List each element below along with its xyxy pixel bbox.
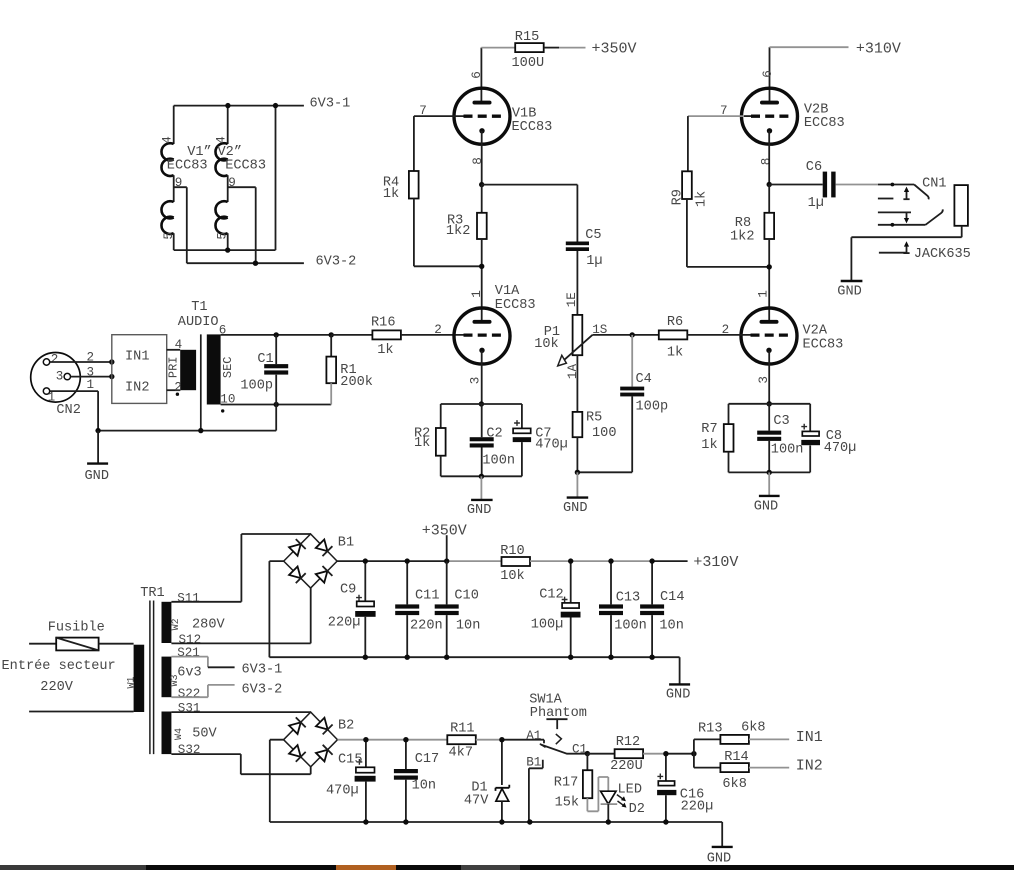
resistor R1: [330, 335, 332, 357]
wire R11 to switch A1: [476, 739, 502, 741]
resistor R12: [615, 749, 644, 758]
transformer T1 core screen: [200, 334, 202, 430]
wire S11 to B1 top: [171, 534, 310, 602]
wire V2B cathode pin8: [768, 131, 770, 185]
svg-text:280V: 280V: [192, 618, 225, 633]
capacitor C8 electrolytic: [809, 404, 811, 432]
wire XLR pin2 to IN1: [50, 361, 112, 363]
wire V2 heater mid: [227, 175, 229, 202]
bridge rectifier B2: [284, 712, 355, 767]
jack sleeve contact: [879, 252, 906, 254]
node +350V stub: [446, 535, 448, 561]
svg-text:3: 3: [56, 370, 64, 384]
resistor R14: [720, 763, 749, 772]
svg-text:D2: D2: [629, 802, 645, 817]
wire LT plus rail: [338, 739, 448, 741]
svg-text:100µ: 100µ: [531, 618, 564, 633]
svg-text:ECC83: ECC83: [803, 337, 844, 352]
svg-text:TR1: TR1: [140, 586, 164, 601]
svg-text:9: 9: [228, 176, 236, 190]
svg-text:GND: GND: [666, 687, 690, 702]
wire cathode group top rail: [441, 403, 522, 405]
capacitor C17: [405, 740, 407, 769]
svg-text:6k8: 6k8: [722, 777, 746, 792]
heater coil V1 lower: [161, 201, 173, 234]
wire B1 minus to ground rail: [269, 561, 283, 657]
svg-text:220V: 220V: [40, 680, 73, 695]
svg-text:1: 1: [48, 391, 56, 405]
wire branch to R13: [694, 739, 721, 753]
svg-text:SEC: SEC: [221, 356, 235, 378]
resistor R17: [586, 754, 588, 771]
jack arrow down: [906, 213, 908, 220]
wire R3 to V1A plate: [481, 239, 483, 321]
svg-text:6V3-2: 6V3-2: [316, 254, 357, 269]
wire R8 to V2A plate: [768, 239, 770, 321]
svg-text:1: 1: [470, 290, 484, 298]
tube V1B: [454, 88, 552, 144]
phase dot PRI: [176, 393, 179, 396]
svg-text:R7: R7: [701, 422, 717, 437]
wire V1 pin5 drop: [173, 233, 175, 250]
resistor R9: [682, 171, 692, 199]
resistor R16: [331, 334, 372, 336]
transformer T1 primary winding: [180, 350, 196, 390]
resistor R8: [768, 185, 770, 213]
zener diode D1: [501, 740, 503, 785]
jack ring lever: [926, 209, 943, 224]
capacitor C16 electrolytic: [665, 754, 667, 781]
svg-text:R17: R17: [554, 775, 578, 790]
svg-text:IN1: IN1: [125, 350, 149, 365]
svg-text:T1: T1: [191, 300, 207, 315]
P1 wiper arrow: [564, 335, 593, 361]
svg-text:4: 4: [161, 136, 175, 144]
svg-text:100: 100: [592, 426, 616, 441]
svg-text:GND: GND: [837, 284, 861, 299]
wire V1B cathode pin8: [481, 131, 483, 185]
bottom taskbar strip: [0, 865, 1014, 870]
node R1 top: [329, 332, 334, 337]
node V2B cathode: [767, 182, 772, 187]
svg-text:200k: 200k: [340, 375, 373, 390]
svg-text:+310V: +310V: [693, 554, 738, 571]
capacitor C10: [446, 561, 448, 604]
svg-text:CN1: CN1: [922, 177, 946, 192]
svg-text:S12: S12: [179, 633, 202, 647]
svg-text:C10: C10: [454, 588, 478, 603]
wire R17 to LED jog: [587, 777, 608, 811]
svg-text:1k: 1k: [377, 343, 393, 358]
svg-text:S22: S22: [178, 687, 201, 701]
svg-text:C5: C5: [585, 228, 601, 243]
transformer TR1 core: [150, 601, 154, 755]
svg-text:6k8: 6k8: [741, 720, 765, 735]
node R5/C4 ground: [575, 470, 580, 475]
wire heater 6V3-1 top rail: [174, 105, 304, 107]
node C1 bottom: [274, 402, 279, 407]
ground P1/R5: [576, 472, 578, 497]
transformer T1 input box: [112, 335, 167, 404]
svg-text:1k: 1k: [383, 187, 399, 202]
node R13/R14 branch: [691, 751, 696, 756]
wire jack sleeve to ground: [851, 226, 961, 281]
transformer TR1 6v3 winding: [162, 657, 172, 698]
wire V1A cathode: [481, 351, 483, 404]
svg-text:1k: 1k: [667, 345, 683, 360]
node V1B cathode: [479, 182, 484, 187]
svg-text:+310V: +310V: [856, 40, 901, 57]
wire +310V rail: [530, 560, 652, 562]
svg-text:C3: C3: [773, 414, 789, 429]
svg-text:100p: 100p: [636, 400, 669, 415]
svg-text:C2: C2: [486, 426, 502, 441]
wire R6 to V2A grid: [687, 334, 750, 336]
wire V1 heater mid: [173, 175, 175, 202]
wire V2 pin9 tap: [228, 187, 256, 263]
bridge rectifier B1: [284, 534, 354, 588]
wire C1 to R12: [587, 753, 614, 755]
svg-text:C11: C11: [415, 588, 439, 603]
node R3/R4 junction: [479, 264, 484, 269]
svg-text:ECC83: ECC83: [167, 158, 208, 173]
svg-text:3: 3: [469, 377, 483, 385]
svg-text:220U: 220U: [610, 759, 643, 774]
potentiometer P1: [573, 315, 583, 355]
wire cathode to C6: [769, 184, 823, 186]
heater coil V2 lower: [215, 201, 227, 234]
capacitor C12 electrolytic: [570, 561, 572, 603]
svg-text:1k2: 1k2: [730, 229, 754, 244]
svg-text:6: 6: [761, 70, 775, 78]
svg-text:1k: 1k: [701, 438, 717, 453]
fuse F1: [56, 638, 98, 651]
wire C6 to jack CN1: [836, 184, 878, 186]
ground V1A cathode: [480, 476, 482, 500]
resistor R4: [409, 171, 419, 199]
svg-text:R6: R6: [667, 315, 683, 330]
svg-text:Entrée secteur: Entrée secteur: [2, 659, 116, 674]
svg-text:5: 5: [162, 232, 176, 240]
svg-text:IN1: IN1: [796, 729, 823, 746]
jack ring contact lower: [878, 224, 926, 226]
wire S22 to 6V3-2: [171, 685, 208, 697]
svg-text:R16: R16: [371, 315, 395, 330]
svg-text:10k: 10k: [500, 569, 524, 584]
wire V2 heater pin4 drop: [227, 106, 229, 144]
svg-text:GND: GND: [707, 852, 731, 867]
svg-text:IN2: IN2: [125, 380, 149, 395]
svg-text:R13: R13: [698, 722, 722, 737]
wire box to PRI top: [167, 349, 181, 351]
wire V1B grid pin7: [414, 116, 464, 171]
node cathode group bottom: [479, 474, 484, 479]
svg-text:B2: B2: [338, 719, 354, 734]
svg-text:220µ: 220µ: [681, 799, 714, 814]
svg-text:R11: R11: [450, 721, 474, 736]
node XLR pin1 ground: [95, 428, 100, 433]
capacitor C13: [610, 561, 612, 604]
wire S12 to B1 bottom: [171, 588, 310, 643]
svg-text:A1: A1: [526, 729, 541, 743]
svg-text:10n: 10n: [412, 778, 436, 793]
svg-text:ECC83: ECC83: [225, 158, 266, 173]
svg-text:AUDIO: AUDIO: [178, 315, 219, 330]
svg-text:Fusible: Fusible: [48, 621, 105, 636]
tube V1A: [454, 284, 536, 364]
svg-text:IN2: IN2: [796, 757, 823, 774]
wire V2B grid pin7: [688, 115, 744, 117]
svg-text:R9: R9: [670, 189, 685, 205]
svg-text:2: 2: [87, 350, 95, 364]
svg-text:10n: 10n: [456, 619, 480, 634]
svg-text:6V3-1: 6V3-1: [310, 97, 351, 112]
svg-text:R12: R12: [616, 735, 640, 750]
node heater junctions: [225, 103, 230, 108]
ground LT rail: [721, 822, 723, 847]
svg-text:R5: R5: [586, 411, 602, 426]
wire SEC bottom rail: [221, 404, 332, 406]
jack ring contact upper: [878, 211, 911, 213]
wire SEC top rail to R16: [221, 334, 332, 336]
svg-text:4k7: 4k7: [449, 746, 473, 761]
connector CN1 jack tip lever: [914, 185, 929, 200]
capacitor C9 electrolytic: [364, 561, 366, 601]
capacitor C6: [823, 172, 827, 198]
svg-text:+350V: +350V: [422, 523, 467, 540]
svg-text:2: 2: [434, 323, 442, 337]
svg-text:15k: 15k: [555, 795, 579, 810]
svg-text:S11: S11: [177, 591, 200, 605]
svg-text:100n: 100n: [771, 442, 804, 457]
wire C5 to P1: [576, 251, 578, 315]
wire V2B plate to +310V: [769, 47, 771, 102]
svg-text:2: 2: [174, 380, 182, 394]
svg-text:10n: 10n: [659, 619, 683, 634]
transformer TR1 280V winding: [162, 602, 172, 643]
wire R4 to grid-leak node: [414, 199, 482, 267]
svg-text:1k2: 1k2: [446, 224, 470, 239]
jack body: [954, 185, 968, 226]
svg-text:8: 8: [471, 157, 485, 165]
svg-text:R14: R14: [724, 750, 748, 765]
node R8/R9 junction: [767, 264, 772, 269]
svg-text:220n: 220n: [410, 619, 443, 634]
resistor R11: [447, 735, 476, 744]
node C1 top: [274, 332, 279, 337]
wire fuse to TR1: [99, 643, 134, 645]
svg-text:S31: S31: [178, 701, 201, 715]
svg-text:47V: 47V: [464, 794, 489, 809]
svg-text:470µ: 470µ: [824, 441, 857, 456]
svg-text:C4: C4: [636, 372, 652, 387]
svg-text:1k: 1k: [695, 191, 710, 207]
wire V2A cathode group bottom rail: [729, 471, 811, 473]
wire LT ground rail: [270, 821, 722, 823]
svg-text:470µ: 470µ: [326, 783, 359, 798]
wire R16 to V1A grid: [401, 334, 464, 336]
capacitor C1: [275, 335, 277, 364]
svg-text:10k: 10k: [534, 337, 558, 352]
svg-text:6V3-2: 6V3-2: [242, 683, 283, 698]
LED D2: [601, 791, 616, 804]
resistor R15: [515, 43, 544, 52]
wire 6V3-2 rail: [187, 262, 304, 264]
svg-text:6: 6: [470, 71, 484, 79]
svg-text:C12: C12: [539, 587, 563, 602]
svg-text:C6: C6: [806, 160, 822, 175]
svg-text:W2: W2: [171, 618, 182, 630]
capacitor C5: [566, 242, 589, 246]
jack arrow up 2: [906, 245, 908, 254]
phase dot SEC: [221, 409, 224, 412]
svg-text:100U: 100U: [512, 56, 545, 71]
svg-text:R15: R15: [515, 30, 539, 45]
wire HT ground rail: [269, 656, 679, 658]
svg-text:CN2: CN2: [56, 403, 80, 418]
wire S32 to B2 bottom: [171, 754, 310, 774]
node V2A cathode group bottom: [767, 470, 772, 475]
wire mains input top: [29, 643, 56, 645]
svg-text:S21: S21: [177, 646, 200, 660]
tube V2A: [741, 308, 843, 364]
svg-text:LED: LED: [618, 782, 642, 797]
capacitor C3: [768, 404, 770, 431]
svg-text:1: 1: [757, 290, 771, 298]
wire cathode to C5: [482, 185, 578, 242]
svg-text:220µ: 220µ: [328, 616, 361, 631]
switch lever: [541, 745, 588, 754]
capacitor C14: [651, 561, 653, 604]
wire branch to R14: [694, 754, 721, 768]
ground jack: [841, 280, 863, 282]
tube V2B: [742, 88, 845, 144]
node V2A cathode group top: [767, 401, 772, 406]
svg-text:ECC83: ECC83: [495, 298, 536, 313]
svg-text:100p: 100p: [240, 379, 273, 394]
svg-text:GND: GND: [563, 501, 587, 516]
svg-text:ECC83: ECC83: [804, 116, 845, 131]
capacitor C4: [631, 335, 633, 387]
svg-text:C9: C9: [340, 582, 356, 597]
wire box to PRI bottom: [167, 389, 181, 391]
svg-text:+350V: +350V: [592, 41, 637, 58]
node V1A cathode group top: [479, 401, 484, 406]
svg-text:C14: C14: [660, 590, 684, 605]
resistor R6: [659, 330, 688, 339]
jack tip contact: [878, 198, 894, 200]
svg-text:6v3: 6v3: [177, 666, 201, 681]
heater coil V1 upper: [161, 143, 173, 176]
resistor R2: [440, 404, 442, 428]
svg-text:100n: 100n: [614, 619, 647, 634]
wire V1 heater pin4 drop: [173, 106, 175, 144]
wire P1 wiper to R6 node: [592, 334, 658, 336]
wire XLR pin3 to IN2: [71, 376, 112, 378]
ground HT rail: [679, 657, 681, 684]
svg-text:GND: GND: [467, 503, 491, 518]
svg-text:ECC83: ECC83: [512, 120, 553, 135]
connector CN2 XLR: [31, 353, 81, 403]
wire cathode group bottom rail: [441, 475, 522, 477]
wire R9 to grid-leak node: [687, 199, 769, 267]
capacitor C11: [406, 561, 408, 604]
svg-text:JACK635: JACK635: [914, 247, 971, 262]
wire R13 to IN1: [749, 738, 789, 740]
svg-text:2: 2: [722, 323, 730, 337]
wire audio ground rail: [98, 430, 276, 432]
svg-text:W3: W3: [170, 674, 181, 686]
svg-text:PRI: PRI: [166, 356, 180, 378]
wire R15 to +350V: [544, 47, 559, 49]
transformer TR1 50V winding: [162, 712, 172, 755]
resistor R7: [728, 404, 730, 424]
svg-text:1E: 1E: [565, 292, 579, 307]
wire V2A cathode: [768, 351, 770, 404]
resistor R10: [502, 557, 531, 566]
svg-text:1: 1: [87, 378, 95, 392]
svg-text:W4: W4: [174, 728, 185, 740]
svg-text:C1: C1: [257, 352, 273, 367]
svg-text:C13: C13: [616, 590, 640, 605]
svg-text:5: 5: [216, 232, 230, 240]
capacitor C15 electrolytic: [365, 740, 367, 768]
svg-text:4: 4: [175, 338, 183, 352]
wire B2 minus to LT ground rail: [270, 740, 284, 822]
svg-text:R10: R10: [500, 544, 524, 559]
resistor R3: [481, 185, 483, 213]
svg-text:W1: W1: [126, 676, 137, 688]
wire S31 to B2 top: [171, 711, 310, 713]
node screen ground: [198, 428, 203, 433]
wire V2A cathode group top rail: [729, 403, 811, 405]
resistor R5: [573, 412, 583, 437]
svg-text:C15: C15: [338, 752, 362, 767]
capacitor C2: [481, 404, 483, 437]
wire R14 to IN2: [749, 767, 789, 769]
capacitor C7 electrolytic: [521, 404, 523, 428]
svg-text:V1A: V1A: [495, 284, 520, 299]
svg-text:1k: 1k: [414, 436, 430, 451]
svg-text:1µ: 1µ: [586, 254, 602, 269]
wire heater bottom link rail: [174, 106, 276, 251]
svg-text:470µ: 470µ: [535, 438, 568, 453]
jack arrow up 1: [906, 190, 908, 199]
wire V1 pin9 tap: [174, 187, 187, 263]
svg-text:100n: 100n: [482, 454, 515, 469]
ground CN2: [97, 431, 99, 464]
ground V2A cathode: [768, 472, 770, 495]
svg-text:9: 9: [175, 176, 183, 190]
svg-text:50V: 50V: [192, 727, 217, 742]
wire V1B plate to R15: [480, 48, 482, 102]
svg-text:1µ: 1µ: [808, 196, 824, 211]
node C4 top: [630, 332, 635, 337]
resistor R13: [720, 735, 749, 744]
wire R5 to ground node: [577, 437, 632, 472]
heater coil V2 upper: [215, 143, 227, 176]
wire XLR pin1 to ground rail: [50, 391, 98, 431]
wire SEC rail to audio ground: [275, 405, 277, 431]
transformer TR1 primary winding: [134, 645, 145, 712]
transformer T1 secondary winding: [207, 334, 221, 404]
wire C4 bottom: [631, 396, 633, 472]
wire R12 output: [643, 753, 666, 755]
svg-text:6V3-1: 6V3-1: [242, 663, 283, 678]
wire V2 pin5 drop: [227, 233, 229, 250]
svg-text:C17: C17: [415, 752, 439, 767]
wire P1 bottom to R5: [576, 355, 578, 412]
